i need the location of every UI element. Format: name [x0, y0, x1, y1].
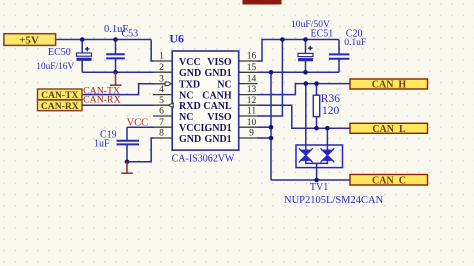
wire TVS bottom tie [306, 160, 328, 163]
svg-text:CAN-RX: CAN-RX [41, 101, 79, 112]
pin 6 [153, 115, 172, 117]
pin 13 [239, 94, 258, 96]
wire +5V rail top-left [56, 39, 152, 41]
svg-text:NUP2105L/SM24CAN: NUP2105L/SM24CAN [284, 195, 384, 206]
pin 3 [153, 83, 172, 85]
pin 7 [153, 126, 172, 128]
svg-text:RXD: RXD [179, 101, 201, 112]
chip pin labels [179, 57, 208, 145]
svg-text:EC50: EC50 [48, 47, 71, 58]
svg-text:8: 8 [159, 129, 164, 139]
wire EC50 top [81, 40, 83, 54]
svg-text:4: 4 [159, 85, 164, 95]
svg-text:TXD: TXD [179, 79, 200, 90]
svg-text:CANH: CANH [202, 90, 232, 101]
wire C20 top [338, 40, 340, 54]
node tvs canc [314, 178, 319, 183]
svg-text:EC51: EC51 [311, 29, 334, 40]
node canl tvs [325, 126, 330, 131]
wire C53 top [115, 40, 117, 54]
svg-text:1: 1 [159, 52, 164, 62]
resistor R36 [313, 95, 319, 116]
svg-text:GND1: GND1 [204, 123, 231, 134]
pin 15 [239, 71, 258, 73]
pin 12 [239, 104, 258, 106]
pin 5 output arrow [168, 103, 173, 107]
svg-text:NC: NC [217, 79, 231, 90]
svg-text:VISO: VISO [207, 112, 232, 123]
pin 5 [153, 104, 172, 106]
capacitor C19 [117, 141, 140, 145]
port CAN_L [350, 123, 428, 135]
svg-text:VISO: VISO [207, 57, 232, 68]
TVS TV1 box [296, 145, 343, 168]
capacitor C53 [106, 54, 125, 58]
op chip U6 body [172, 51, 239, 150]
svg-text:6: 6 [159, 107, 164, 117]
ground under C19 [121, 162, 133, 173]
wire pin12 CANL [257, 105, 350, 128]
wire TVS left diode up [305, 84, 307, 151]
svg-text:CAN_C: CAN_C [372, 175, 406, 186]
node EC51 bottom [303, 70, 308, 75]
svg-text:13: 13 [247, 85, 257, 95]
wire EC51 bottom [305, 61, 307, 73]
node EC50 top [80, 37, 85, 42]
wire pin13 CANH [257, 84, 350, 95]
top cropped dark red bar [243, 0, 282, 5]
svg-text:16: 16 [247, 52, 257, 62]
wire R36 top [316, 84, 318, 96]
svg-text:NC: NC [179, 112, 193, 123]
wire TVS center down [316, 163, 318, 180]
pin 8 [153, 137, 172, 139]
port CAN_C [350, 175, 428, 187]
TVS diode right [321, 148, 335, 162]
node viso rail [280, 37, 285, 42]
wire VCC pin7 [127, 126, 154, 128]
svg-text:VCC: VCC [127, 118, 149, 129]
svg-text:0.1uF: 0.1uF [344, 37, 366, 48]
node pin9 [269, 136, 274, 141]
pin numbers right [247, 52, 257, 139]
svg-text:GND: GND [179, 134, 201, 145]
wire viso to pin11 [257, 40, 282, 117]
TVS diode left [299, 148, 313, 162]
svg-text:GND: GND [179, 68, 201, 79]
pin 9 [239, 137, 258, 139]
pin 16 [239, 60, 258, 62]
svg-text:2: 2 [159, 63, 164, 73]
svg-text:120: 120 [322, 105, 340, 117]
node pin10 [269, 125, 274, 130]
wire pin10 link [257, 126, 271, 128]
svg-text:R36: R36 [321, 93, 340, 105]
wire pin16 to viso rail [257, 40, 339, 62]
svg-text:TV1: TV1 [310, 182, 328, 193]
svg-text:+5V: +5V [19, 34, 39, 46]
capacitor C20 [329, 54, 350, 58]
pin 10 [239, 126, 258, 128]
svg-text:11: 11 [247, 107, 256, 117]
wire R36 bottom [316, 117, 318, 129]
svg-text:VCC: VCC [179, 57, 201, 68]
svg-text:15: 15 [247, 63, 257, 73]
pin 2 [153, 71, 172, 73]
wire CAN_C [271, 179, 350, 181]
port CAN-TX [38, 89, 83, 101]
port CAN-RX [38, 100, 83, 112]
wire C20 bottom [338, 60, 340, 73]
wire CAN-TX [82, 84, 154, 95]
svg-text:GND1: GND1 [204, 134, 231, 145]
svg-text:U6: U6 [169, 32, 184, 46]
wire CAN-RX [82, 104, 154, 106]
svg-text:NC: NC [179, 90, 193, 101]
svg-text:12: 12 [247, 96, 257, 106]
node canh r36 [314, 81, 319, 86]
svg-text:9: 9 [249, 129, 254, 139]
node canl r36 [314, 126, 319, 131]
node C53 bottom [113, 70, 118, 75]
svg-text:10: 10 [247, 118, 257, 128]
svg-text:CAN_L: CAN_L [372, 124, 406, 135]
pin 11 [239, 115, 258, 117]
pin numbers left [159, 52, 164, 139]
svg-text:CAN-TX: CAN-TX [41, 90, 78, 101]
svg-text:CA-IS3062VW: CA-IS3062VW [172, 153, 235, 164]
node C19 gnd [125, 160, 130, 165]
wire C19 bottom [126, 145, 128, 162]
svg-text:7: 7 [159, 118, 164, 128]
pins left [153, 61, 258, 138]
pin 4 [153, 94, 172, 96]
svg-text:14: 14 [247, 74, 257, 84]
node gnd1 rail [269, 70, 274, 75]
capacitor EC50 [77, 47, 92, 61]
svg-text:10uF/16V: 10uF/16V [36, 62, 74, 72]
pin 14 [239, 83, 258, 85]
wire pin1 feed [151, 40, 153, 62]
node C53 top [113, 37, 118, 42]
svg-text:C53: C53 [122, 29, 139, 40]
wire pin8 to gnd [127, 138, 154, 162]
wire EC51 top [305, 40, 307, 54]
power port +5V [4, 34, 56, 47]
svg-text:5: 5 [159, 96, 164, 106]
wire C19 top [126, 127, 128, 140]
svg-text:CANL: CANL [203, 101, 232, 112]
wire gnd1 rail right [257, 71, 339, 73]
svg-text:VCCL: VCCL [179, 123, 208, 134]
svg-text:1uF: 1uF [94, 138, 110, 149]
ground under C53 [110, 72, 122, 85]
svg-text:CAN-RX: CAN-RX [83, 94, 121, 105]
pin 3 input arrow [165, 82, 171, 86]
wire gnd rail left [82, 71, 153, 73]
wire gnd1 vertical [270, 72, 272, 180]
wire C53 bottom [115, 59, 117, 72]
wire pin9 link [257, 137, 271, 139]
node canh tvs [304, 81, 309, 86]
wire TVS right diode up [326, 128, 328, 150]
svg-text:GND1: GND1 [204, 68, 231, 79]
pin 1 [153, 60, 172, 62]
svg-text:3: 3 [159, 74, 164, 84]
wire EC50 bottom [81, 61, 83, 72]
node EC51 top [303, 37, 308, 42]
capacitor EC51 [298, 46, 313, 62]
svg-text:CAN_H: CAN_H [372, 80, 407, 91]
port CAN_H [350, 79, 428, 91]
